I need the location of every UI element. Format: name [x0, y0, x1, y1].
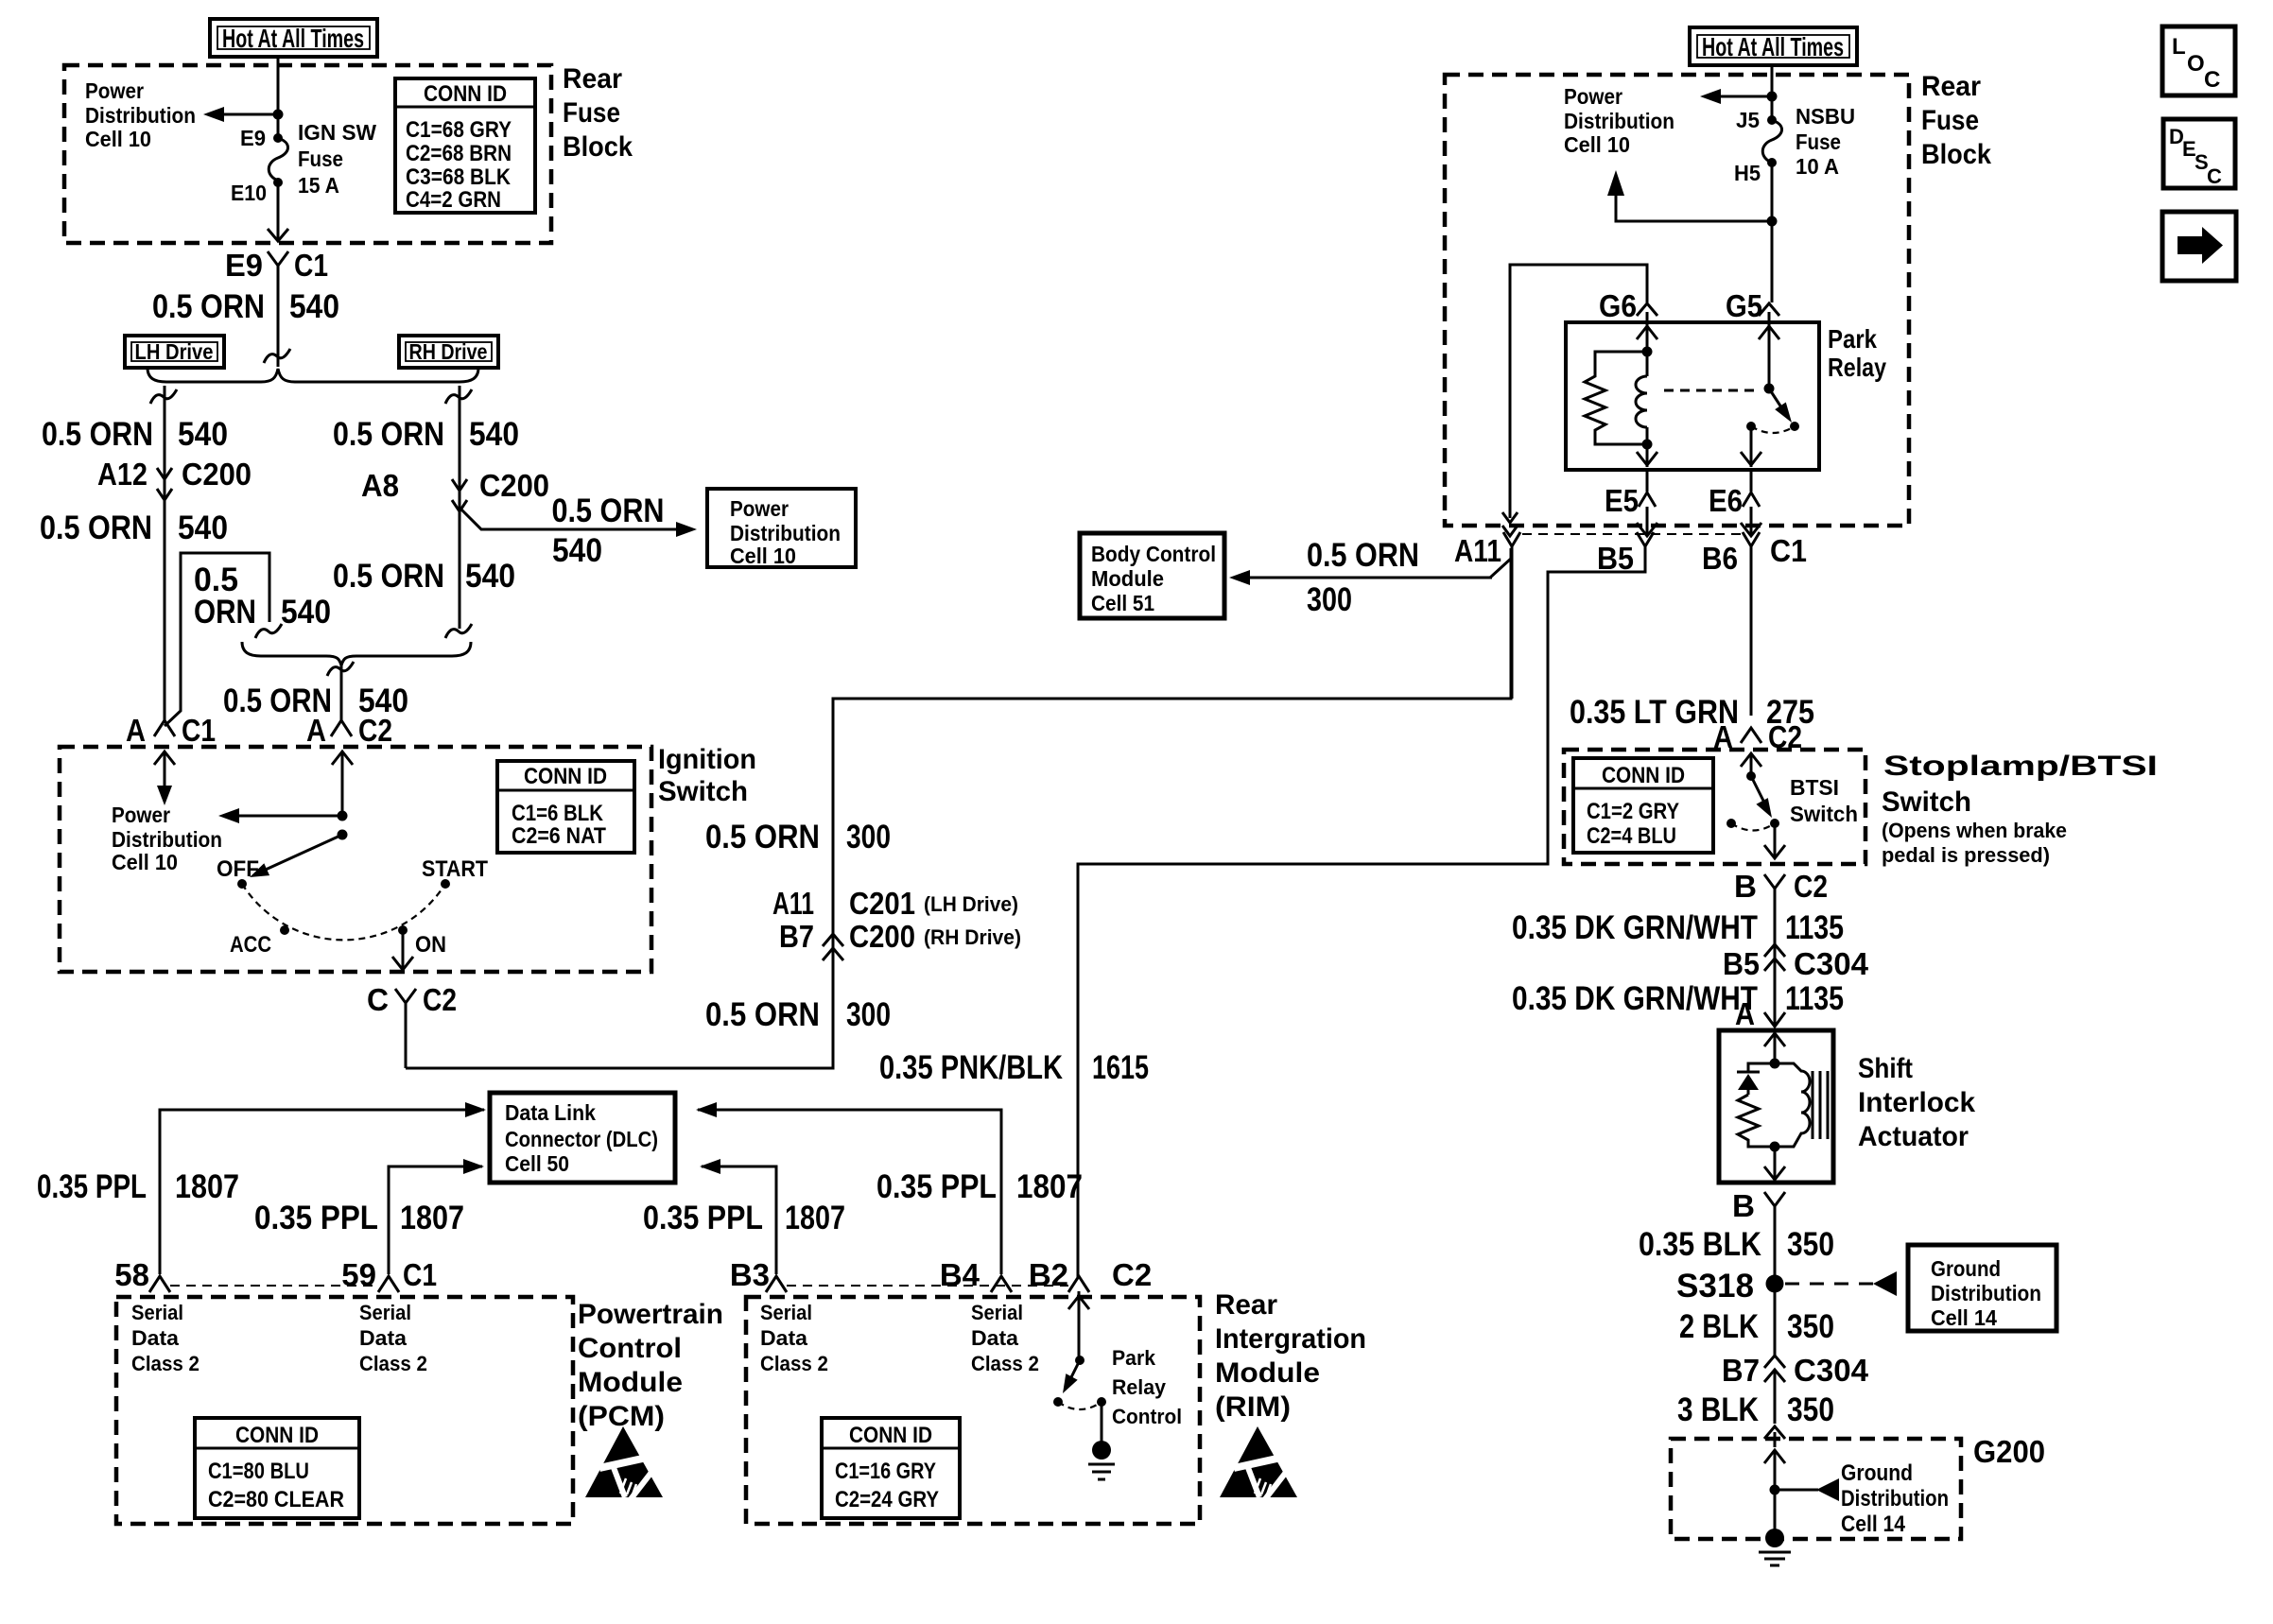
wire label 0.35 BLK / 350	[1639, 1226, 1834, 1263]
svg-text:E6: E6	[1709, 483, 1743, 518]
svg-text:540: 540	[289, 288, 339, 325]
box Body Control Module Cell 51	[1080, 533, 1224, 618]
svg-text:C2: C2	[1112, 1257, 1152, 1292]
BTSI exit wire	[1764, 823, 1785, 858]
wire to Power Distribution arrow (right)	[1716, 95, 1772, 98]
dashed link coil to switch	[1664, 389, 1761, 392]
BTSI switch arm	[1751, 776, 1765, 804]
node ignition feed	[338, 811, 348, 821]
connector A fork into shift interlock	[1764, 1012, 1785, 1027]
svg-text:Cell 10: Cell 10	[1564, 132, 1630, 157]
connector fork B5	[1637, 532, 1654, 546]
svg-text:C2=24 GRY: C2=24 GRY	[835, 1487, 939, 1512]
svg-text:Rear: Rear	[1215, 1289, 1277, 1321]
svg-text:Cell 14: Cell 14	[1931, 1305, 1997, 1330]
svg-text:Switch: Switch	[1790, 802, 1858, 826]
svg-text:Data: Data	[760, 1326, 808, 1350]
contact open (park relay control)	[1053, 1397, 1063, 1407]
svg-text:0.5 ORN: 0.5 ORN	[705, 996, 820, 1033]
arrow into DLC (from 59)	[463, 1159, 484, 1174]
svg-text:Power: Power	[85, 78, 144, 103]
svg-text:1615: 1615	[1092, 1049, 1149, 1086]
svg-text:Actuator: Actuator	[1858, 1121, 1969, 1152]
arrow up at A/C2 entry	[332, 752, 353, 816]
svg-text:C200: C200	[182, 457, 252, 492]
node E10	[273, 178, 283, 187]
svg-text:0.5 ORN: 0.5 ORN	[1307, 537, 1419, 574]
label Stoplamp/BTSI Switch	[1882, 751, 2158, 867]
connector fork A11	[1503, 532, 1520, 546]
svg-text:0.5 ORN: 0.5 ORN	[552, 492, 665, 529]
connector A/C2 fork into BTSI	[1741, 728, 1761, 743]
svg-text:OFF: OFF	[217, 856, 259, 882]
svg-text:Cell 10: Cell 10	[85, 127, 151, 151]
svg-text:Switch: Switch	[658, 776, 748, 807]
svg-text:0.5 ORN: 0.5 ORN	[333, 558, 444, 595]
svg-text:350: 350	[1787, 1226, 1834, 1263]
svg-text:NSBU: NSBU	[1796, 104, 1855, 129]
svg-text:C1: C1	[294, 248, 328, 283]
connector fork E5	[1639, 470, 1656, 507]
svg-text:A: A	[1735, 996, 1755, 1031]
wire label 2 BLK / 350	[1679, 1308, 1834, 1345]
wire E5 to B5 crossing fuse block edge	[1637, 507, 1657, 536]
brace merge to ignition C2	[242, 642, 471, 665]
svg-text:E9: E9	[240, 126, 266, 150]
arrow reference (S318)	[1873, 1271, 1897, 1296]
node park relay control pivot	[1075, 1356, 1084, 1365]
svg-text:C2=80 CLEAR: C2=80 CLEAR	[208, 1487, 344, 1512]
svg-text:1135: 1135	[1785, 909, 1844, 946]
svg-text:Fuse: Fuse	[563, 97, 620, 129]
svg-text:Ground: Ground	[1931, 1256, 2001, 1281]
contact ON	[398, 925, 408, 935]
svg-text:Ground: Ground	[1841, 1460, 1913, 1486]
legend box DESC	[2163, 119, 2235, 188]
text Ground Distribution Cell 14 (G200)	[1841, 1460, 1949, 1537]
arrowhead of wiper	[250, 863, 269, 877]
label Rear Fuse Block (right)	[1921, 71, 1991, 170]
wire label 0.35 LT GRN / 275	[1570, 694, 1814, 731]
relay switch exit wire E6	[1741, 426, 1761, 467]
svg-text:Module: Module	[1215, 1357, 1320, 1389]
svg-text:Body Control: Body Control	[1091, 542, 1216, 566]
svg-text:350: 350	[1787, 1308, 1834, 1345]
relay coil	[1636, 376, 1647, 427]
svg-text:1807: 1807	[785, 1200, 845, 1236]
arrow into DLC (from 58)	[465, 1102, 486, 1117]
contact BTSI open (left)	[1726, 819, 1736, 828]
wire RH drive branch	[445, 386, 472, 629]
node BTSI pivot	[1746, 771, 1756, 781]
node shift bottom	[1770, 1142, 1780, 1152]
connector A/C2 fork into ignition switch	[331, 716, 352, 736]
svg-text:Cell 51: Cell 51	[1091, 591, 1154, 615]
text Serial Data Class 2 (RIM B3)	[760, 1301, 828, 1375]
svg-text:300: 300	[1307, 581, 1352, 618]
svg-text:300: 300	[846, 819, 891, 855]
connector B/C2 fork below BTSI	[1764, 874, 1785, 1027]
svg-text:LH Drive: LH Drive	[135, 339, 214, 364]
svg-text:0.5 ORN: 0.5 ORN	[40, 510, 152, 546]
wire label 0.5 ORN / 300 (upper)	[705, 819, 891, 855]
node E9	[273, 133, 283, 143]
wire label 0.35 DK GRN/WHT / 1135 (lower)	[1512, 980, 1844, 1017]
node relay switch pivot	[1764, 384, 1775, 394]
connector B fork below shift actuator	[1764, 1192, 1785, 1278]
label box RH Drive	[399, 336, 498, 368]
svg-text:C2=68 BRN: C2=68 BRN	[406, 141, 512, 166]
svg-text:Serial: Serial	[359, 1301, 411, 1324]
svg-text:A11: A11	[772, 886, 814, 921]
thin dashed connector line (RIM)	[787, 1285, 1068, 1287]
svg-text:540: 540	[552, 532, 602, 569]
node H5	[1767, 158, 1777, 167]
node feed (right fuse block)	[1767, 92, 1778, 102]
svg-text:Stoplamp/BTSI: Stoplamp/BTSI	[1883, 751, 2158, 782]
svg-text:C: C	[367, 982, 389, 1017]
switch arm wiper to OFF	[257, 835, 342, 873]
box Power Distribution Cell 10	[707, 489, 856, 568]
wire label 0.5 ORN / 540 (stacked, tap)	[194, 561, 331, 631]
svg-text:O: O	[2187, 51, 2205, 77]
svg-text:E5: E5	[1605, 483, 1639, 518]
svg-text:ORN: ORN	[194, 594, 256, 631]
thin dashed connector line (PCM)	[170, 1285, 378, 1287]
resistor (shift actuator)	[1738, 1095, 1775, 1147]
svg-text:Park: Park	[1112, 1346, 1156, 1370]
dashed box PCM serial data	[116, 1297, 573, 1524]
svg-text:B: B	[1734, 869, 1757, 904]
svg-text:C200: C200	[479, 468, 549, 503]
svg-text:540: 540	[465, 558, 515, 595]
svg-text:C4=2 GRN: C4=2 GRN	[406, 187, 501, 213]
arrow into DLC (from B4)	[696, 1102, 717, 1117]
svg-text:Switch: Switch	[1882, 786, 1971, 818]
svg-text:Rear: Rear	[563, 63, 622, 95]
svg-text:15 A: 15 A	[298, 173, 339, 198]
svg-text:S318: S318	[1676, 1268, 1754, 1304]
svg-text:0.35 PPL: 0.35 PPL	[643, 1200, 763, 1236]
wire E10 down	[277, 182, 280, 240]
ground dot (park relay control)	[1092, 1441, 1111, 1460]
wire label 0.5 ORN / 540 (LH upper)	[42, 416, 228, 453]
svg-text:Control: Control	[578, 1333, 682, 1364]
svg-text:CONN ID: CONN ID	[1602, 763, 1685, 788]
wire LH drive branch	[150, 386, 177, 721]
connector C201/C200 double chevron	[823, 934, 843, 960]
contact relay arm (right)	[1790, 422, 1799, 431]
label NSBU Fuse 10 A	[1796, 104, 1855, 179]
svg-text:540: 540	[281, 594, 331, 631]
svg-text:B5: B5	[1723, 946, 1760, 981]
svg-text:Cell 50: Cell 50	[505, 1151, 569, 1176]
arrowhead park relay arm	[1063, 1373, 1078, 1393]
wire label 0.5 ORN / 540 (E9-C1)	[152, 288, 339, 325]
connector fork E6	[1743, 470, 1760, 507]
svg-text:350: 350	[1787, 1391, 1834, 1428]
ESD logo (PCM)	[585, 1426, 663, 1499]
svg-text:1807: 1807	[175, 1168, 239, 1205]
wire ON to C/C2 exit	[392, 930, 413, 970]
dashed swing arc (park relay control)	[1058, 1402, 1102, 1409]
node coil top	[1642, 347, 1653, 357]
connector fork B4	[991, 1276, 1012, 1292]
coil core lines (shift actuator)	[1813, 1071, 1828, 1139]
svg-text:Power: Power	[112, 803, 170, 827]
wire alternate bracket (LH drive tap)	[165, 553, 269, 726]
wire label 0.5 ORN / 300 (lower)	[705, 996, 891, 1033]
wire B5 to park relay control (RIM B2)	[1078, 546, 1645, 1278]
label Powertrain Control Module (PCM)	[578, 1299, 723, 1432]
wire PCM 59 to DLC	[389, 1166, 482, 1274]
wire label 3 BLK / 350	[1677, 1391, 1834, 1428]
svg-text:B6: B6	[1702, 541, 1738, 576]
dashed reference wire S318 to ground distribution	[1785, 1283, 1876, 1286]
svg-text:C: C	[2204, 67, 2220, 93]
svg-text:ON: ON	[415, 932, 446, 958]
svg-text:Connector (DLC): Connector (DLC)	[505, 1127, 658, 1151]
wire branch to Power Distribution (diagonal from A8 wire)	[460, 508, 680, 529]
svg-text:Cell 10: Cell 10	[730, 544, 796, 568]
wire C2 to A11 (ignition feed via C201/C200)	[406, 548, 1511, 1068]
legend box forward arrow	[2162, 212, 2236, 281]
ground symbol G200	[1759, 1552, 1791, 1565]
fuse NSBU Fuse 10A symbol	[1762, 120, 1781, 163]
wire label 0.5 ORN / 540 (LH lower)	[40, 510, 228, 546]
arrowhead BTSI arm	[1756, 798, 1772, 818]
dashed box G200	[1671, 1439, 1961, 1539]
svg-text:B7: B7	[1722, 1353, 1760, 1388]
svg-text:Cell 14: Cell 14	[1841, 1512, 1906, 1537]
svg-text:Hot At All Times: Hot At All Times	[222, 24, 364, 53]
svg-text:A: A	[306, 713, 326, 748]
CONN ID table (rear fuse block left)	[395, 78, 535, 213]
arrow to Power Distribution Cell 10	[203, 107, 224, 122]
legend box LOC	[2162, 26, 2235, 95]
wire from Hot At All Times into fuse block	[277, 57, 280, 138]
wire A11 down and left to ignition feed	[1511, 546, 1514, 699]
svg-text:(RIM): (RIM)	[1215, 1391, 1291, 1423]
dashed box RIM serial data	[746, 1297, 1200, 1524]
switch arm park relay control	[1068, 1360, 1080, 1383]
ground dot G200	[1765, 1529, 1784, 1547]
wire B2 park relay control entry	[1068, 1291, 1089, 1360]
svg-text:(PCM): (PCM)	[578, 1401, 665, 1432]
svg-text:START: START	[422, 856, 488, 882]
svg-text:RH Drive: RH Drive	[409, 339, 488, 364]
svg-text:IGN SW: IGN SW	[298, 120, 376, 145]
connector fork 58	[149, 1276, 170, 1292]
svg-text:Serial: Serial	[131, 1301, 183, 1324]
svg-text:C2=6 NAT: C2=6 NAT	[512, 823, 606, 849]
svg-text:B7: B7	[779, 919, 814, 954]
relay switch arm	[1769, 389, 1783, 410]
arrowhead down at fuse block edge	[268, 229, 288, 241]
svg-text:E9: E9	[225, 248, 263, 283]
svg-text:0.35 BLK: 0.35 BLK	[1639, 1226, 1761, 1263]
text Serial Data Class 2 (PCM pin 59)	[359, 1301, 427, 1375]
svg-text:Block: Block	[1921, 139, 1991, 170]
fuse IGN SW Fuse 15A symbol	[269, 138, 287, 181]
text Serial Data Class 2 (PCM pin 58)	[131, 1301, 200, 1375]
svg-text:Data: Data	[359, 1326, 408, 1350]
svg-text:C1=16 GRY: C1=16 GRY	[835, 1459, 936, 1484]
node switch pivot	[338, 830, 348, 840]
svg-text:Park: Park	[1828, 324, 1877, 354]
wire from brace to A/C2	[327, 662, 354, 716]
svg-text:pedal is pressed): pedal is pressed)	[1882, 843, 2050, 867]
wire PCM 58 to DLC	[160, 1110, 484, 1274]
svg-text:Block: Block	[563, 131, 633, 163]
box Park Relay	[1566, 322, 1819, 470]
BTSI entry arrow	[1741, 753, 1761, 776]
svg-text:C1=80 BLU: C1=80 BLU	[208, 1459, 309, 1484]
dashed swing arc (relay)	[1751, 426, 1795, 433]
wire RIM B3 to DLC	[702, 1166, 776, 1274]
arrowhead relay arm	[1775, 403, 1792, 423]
shift actuator entry arrow	[1764, 1033, 1785, 1063]
svg-text:Hot At All Times: Hot At All Times	[1702, 32, 1844, 61]
arrow left (power distribution ignition)	[218, 808, 239, 823]
svg-text:0.35 PPL: 0.35 PPL	[37, 1168, 147, 1205]
svg-text:540: 540	[178, 416, 228, 453]
dashed arc of ignition switch positions	[242, 884, 445, 940]
svg-text:H5: H5	[1734, 161, 1761, 185]
svg-text:Control: Control	[1112, 1405, 1182, 1428]
svg-text:Ignition: Ignition	[658, 744, 756, 775]
wire label 0.35 PPL / 1807 (B3)	[643, 1200, 845, 1236]
svg-text:CONN ID: CONN ID	[849, 1423, 932, 1448]
relay coil wire entry arrow (left)	[1637, 322, 1657, 376]
svg-text:1135: 1135	[1785, 980, 1844, 1017]
arrow reference (G200)	[1816, 1478, 1839, 1501]
svg-text:C1=68 GRY: C1=68 GRY	[406, 117, 512, 143]
contact ACC	[280, 925, 289, 935]
svg-text:Powertrain: Powertrain	[578, 1299, 723, 1330]
wire to left arrow (ignition)	[234, 815, 342, 818]
wire label 0.35 DK GRN/WHT / 1135 (upper)	[1512, 909, 1844, 946]
svg-text:C2: C2	[1794, 869, 1828, 904]
svg-text:0.35 PPL: 0.35 PPL	[254, 1200, 378, 1236]
dashed box Rear Fuse Block (left)	[64, 65, 551, 243]
splice node S318	[1766, 1275, 1784, 1293]
svg-text:Relay: Relay	[1828, 353, 1886, 382]
connector fork B2	[1068, 1276, 1089, 1292]
svg-text:B4: B4	[940, 1257, 980, 1292]
svg-text:Class 2: Class 2	[131, 1352, 200, 1375]
wire E6 to B6 crossing fuse block edge	[1741, 507, 1761, 536]
connector A12/C200 arrows	[157, 468, 172, 500]
dashed box Rear Fuse Block (right)	[1445, 75, 1909, 526]
svg-text:Fuse: Fuse	[1796, 130, 1841, 154]
svg-text:(Opens when brake: (Opens when brake	[1882, 819, 2067, 842]
wire B6 down to stoplamp switch	[1750, 546, 1753, 716]
node G200 branch	[1770, 1485, 1780, 1495]
diode (shift actuator)	[1737, 1063, 1775, 1095]
arrow into DLC (from B3)	[700, 1159, 720, 1174]
wire label 0.5 ORN / 540 (to power dist)	[552, 492, 665, 569]
svg-text:Class 2: Class 2	[971, 1352, 1039, 1375]
connector A8/C200 arrows	[452, 479, 467, 511]
box Ground Distribution Cell 14 (upper)	[1908, 1245, 2056, 1331]
label box "Hot At All Times" (right)	[1690, 27, 1857, 65]
svg-text:Fuse: Fuse	[298, 147, 343, 171]
svg-text:0.5 ORN: 0.5 ORN	[152, 288, 265, 325]
connector chevron G6	[1637, 303, 1657, 322]
svg-text:Cell 10: Cell 10	[112, 850, 178, 874]
text Power Distribution Cell 10 (fuse block left)	[85, 78, 196, 151]
svg-text:C: C	[2207, 164, 2222, 188]
svg-text:1807: 1807	[1016, 1168, 1083, 1205]
svg-text:Distribution: Distribution	[730, 521, 841, 545]
svg-text:Power: Power	[730, 496, 789, 521]
connector fork B3	[766, 1276, 787, 1292]
wire to Body Control Module	[1239, 577, 1492, 579]
svg-text:Relay: Relay	[1112, 1375, 1167, 1399]
connector A/C1 fork into ignition switch	[154, 720, 175, 736]
arrow down to Power Distribution text	[157, 775, 172, 805]
wire H5 down to G5	[1771, 163, 1774, 302]
svg-text:C200: C200	[849, 919, 915, 954]
connector chevron G5	[1759, 303, 1779, 322]
text Power Distribution Cell 10 (right fuse block)	[1564, 84, 1674, 157]
svg-text:A8: A8	[361, 468, 399, 503]
svg-text:E10: E10	[231, 181, 267, 205]
connector fork B6	[1743, 532, 1760, 546]
svg-text:Module: Module	[578, 1367, 683, 1398]
ESD logo (RIM)	[1220, 1426, 1297, 1499]
svg-text:540: 540	[469, 416, 519, 453]
squiggle end of RH wire	[445, 624, 472, 638]
svg-text:0.5 ORN: 0.5 ORN	[333, 416, 444, 453]
CONN ID table (ignition)	[497, 761, 634, 853]
connector C/C2 fork below ignition	[395, 989, 416, 1068]
svg-text:10 A: 10 A	[1796, 154, 1839, 179]
wire label 0.5 ORN / 300 (BCM)	[1307, 537, 1419, 618]
wire RIM B4 to DLC	[698, 1110, 1001, 1274]
node J5	[1767, 115, 1777, 125]
label Rear Intergration Module (RIM)	[1215, 1289, 1366, 1423]
svg-text:540: 540	[178, 510, 228, 546]
label box LH Drive	[125, 336, 224, 368]
svg-text:300: 300	[846, 996, 891, 1033]
svg-text:Serial: Serial	[760, 1301, 812, 1324]
svg-text:Distribution: Distribution	[1931, 1281, 2041, 1305]
contact OFF	[237, 879, 247, 889]
CONN ID table (RIM)	[822, 1418, 960, 1518]
svg-text:C3=68 BLK: C3=68 BLK	[406, 164, 512, 190]
wire to Power Distribution arrow	[219, 113, 278, 116]
label box "Hot At All Times" (left)	[210, 19, 377, 57]
svg-text:C1: C1	[182, 713, 216, 748]
label BTSI Switch	[1790, 775, 1858, 826]
wire label 0.5 ORN / 540 (RH lower)	[333, 558, 515, 595]
CONN ID table (BTSI)	[1573, 758, 1713, 853]
svg-text:C201: C201	[849, 886, 915, 921]
arrow into Body Control Module	[1229, 570, 1250, 585]
arrow up at A/C1 entry	[154, 752, 175, 775]
svg-text:C304: C304	[1794, 946, 1869, 981]
svg-text:2 BLK: 2 BLK	[1679, 1308, 1759, 1345]
svg-text:A: A	[126, 713, 146, 748]
svg-text:Class 2: Class 2	[359, 1352, 427, 1375]
contact BTSI closed (right)	[1770, 819, 1779, 828]
label Shift Interlock Actuator	[1858, 1053, 1975, 1152]
svg-text:Distribution: Distribution	[85, 103, 196, 128]
wire S318 down	[1774, 1284, 1777, 1357]
svg-text:0.5 ORN: 0.5 ORN	[705, 819, 820, 855]
